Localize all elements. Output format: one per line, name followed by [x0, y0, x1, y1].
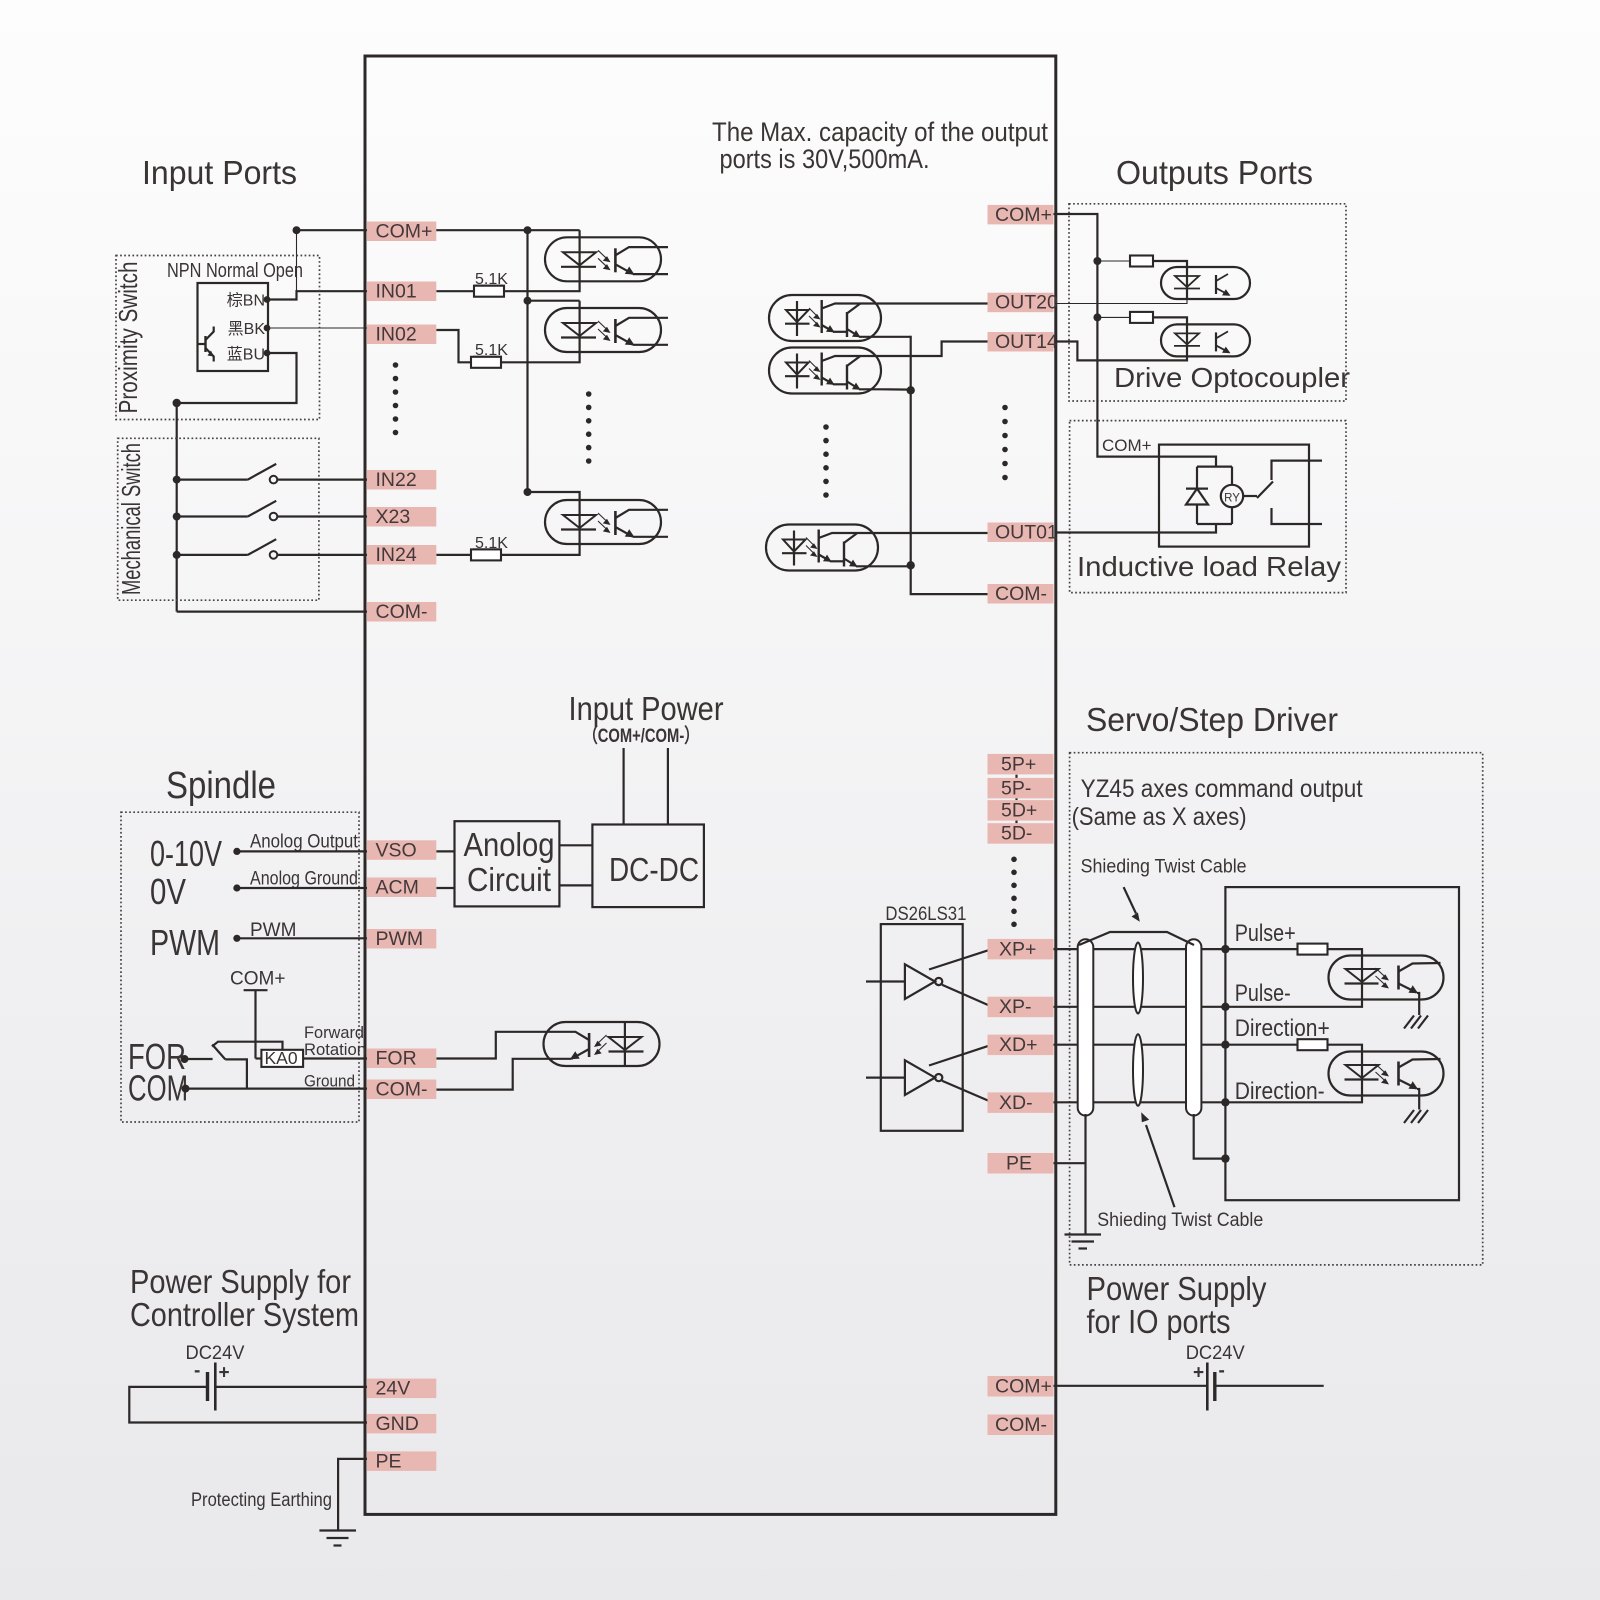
- wire U10 emitter down: [1417, 993, 1419, 1015]
- port COM- (left): [367, 601, 436, 623]
- port 5P+: [988, 753, 1054, 775]
- wire PE port to earth: [338, 1459, 367, 1530]
- wire tube2 tail to driver: [1194, 1114, 1226, 1159]
- wire XP- to driver: [1054, 1006, 1226, 1008]
- svg-text:OUT14: OUT14: [995, 331, 1058, 353]
- svg-text:Inductive load Relay: Inductive load Relay: [1077, 551, 1341, 582]
- wire R5 to U11 anode: [1328, 1045, 1363, 1052]
- junction dot bus to opto2: [524, 297, 532, 305]
- svg-text:(Same as X axes): (Same as X axes): [1072, 803, 1247, 831]
- wire IN01 through R1 to opto1 cathode: [436, 290, 474, 292]
- transistor Q1 inside sensor: [198, 327, 214, 362]
- chip DS26LS31 box: [881, 924, 963, 1131]
- wire U6 collector to OUT01: [878, 532, 988, 534]
- resistor R4: [1298, 944, 1328, 955]
- switch S1 (IN22): [173, 464, 367, 484]
- wire PE to shield: [1054, 1162, 1086, 1164]
- svg-text:COM+: COM+: [995, 1376, 1052, 1398]
- switch S3 (IN24): [173, 539, 367, 559]
- resistor RD1: [1130, 256, 1153, 267]
- wire U4 collector to OUT20: [881, 302, 988, 304]
- wire anolog to dcdc 2: [559, 884, 592, 886]
- junction dot U5 emitter: [907, 386, 915, 394]
- svg-text:5D-: 5D-: [1001, 823, 1032, 845]
- wire XD+ to driver: [1054, 1044, 1226, 1046]
- wire U11 emitter down: [1417, 1089, 1419, 1110]
- svg-text:RY: RY: [1224, 493, 1240, 505]
- port PE (left): [367, 1450, 436, 1472]
- wire battery to right: [1215, 1385, 1324, 1387]
- twist ellipse 2: [1133, 1034, 1143, 1106]
- wire COM+ io to battery: [1054, 1385, 1208, 1387]
- svg-text:XP+: XP+: [999, 938, 1036, 960]
- svg-text:0-10V: 0-10V: [150, 833, 222, 874]
- controller U0 main board outline: [365, 56, 1056, 1514]
- port FOR (left): [367, 1048, 436, 1070]
- svg-text:Shieding Twist Cable: Shieding Twist Cable: [1097, 1210, 1263, 1231]
- port IN24 (left): [367, 544, 436, 566]
- wire bus to opto2 anode: [528, 300, 580, 302]
- junction dot U6 emitter: [907, 561, 915, 569]
- svg-text:DC-DC: DC-DC: [609, 851, 699, 888]
- wire anolog to dcdc 1: [559, 844, 592, 846]
- wire opto1 anode drop: [578, 230, 580, 237]
- ellipsis servo column: [1011, 857, 1017, 928]
- chassis ground U10: [1404, 1016, 1428, 1029]
- resistor R2 5.1K: [471, 357, 501, 368]
- wire COM+ out to drive rail: [1054, 214, 1160, 457]
- port COM- (out) (right): [988, 583, 1054, 605]
- wire U6 emitter to bus: [878, 565, 911, 567]
- svg-text:黑BK: 黑BK: [228, 321, 266, 338]
- relay coil/diode bottom node: [1197, 523, 1232, 525]
- wire ACM to anolog: [436, 887, 454, 889]
- chassis ground U11: [1404, 1110, 1428, 1123]
- tick 5D+/5D-: [1015, 820, 1017, 823]
- wire U5 collector to OUT14: [881, 342, 988, 357]
- resistor R1 5.1K: [474, 286, 504, 297]
- optocoupler U3 (IN24): [545, 500, 668, 544]
- svg-text:Controller System: Controller System: [130, 1296, 359, 1333]
- svg-text:（COM+/COM-）: （COM+/COM-）: [583, 724, 699, 747]
- wire anolog ground to ACM: [237, 887, 367, 889]
- resistor RD2: [1130, 312, 1153, 323]
- svg-text:NPN Normal Open: NPN Normal Open: [167, 260, 303, 282]
- port COM+ (out) (right): [988, 204, 1054, 226]
- wire rail to RD1 (thin): [1097, 260, 1130, 262]
- port XD+: [988, 1034, 1054, 1056]
- optocoupler U9 (FOR) mirrored: [537, 1022, 660, 1066]
- junction dot drive rail 2: [1093, 313, 1101, 321]
- twist ellipse 1: [1133, 943, 1143, 1014]
- svg-text:5P+: 5P+: [1001, 753, 1036, 775]
- svg-text:for IO ports: for IO ports: [1087, 1303, 1231, 1340]
- junction dot drive rail 1: [1093, 257, 1101, 265]
- svg-text:COM+: COM+: [230, 969, 285, 990]
- svg-text:蓝BU: 蓝BU: [227, 346, 265, 364]
- wire IN01 to sensor BN: [267, 291, 367, 299]
- optocoupler U8 (drive OUT14): [1161, 324, 1250, 356]
- junction dot bus to opto3: [524, 488, 532, 496]
- wire IN02 to R2 to opto2 cathode: [436, 330, 471, 362]
- wire COM+ into coil top: [1159, 457, 1216, 467]
- port IN02 (left): [367, 324, 436, 346]
- svg-text:DC24V: DC24V: [1186, 1343, 1245, 1364]
- svg-text:The Max. capacity of the outpu: The Max. capacity of the output: [712, 117, 1048, 147]
- svg-text:5D+: 5D+: [1001, 800, 1037, 822]
- optocoupler U1 (IN01): [545, 237, 668, 281]
- svg-text:Servo/Step Driver: Servo/Step Driver: [1086, 701, 1338, 738]
- port COM- (spindle) (left): [367, 1079, 436, 1101]
- spindle dashed enclosure: [121, 812, 359, 1122]
- junction dot XD+: [1221, 1041, 1229, 1049]
- port COM- (io): [988, 1414, 1054, 1436]
- svg-text:X23: X23: [376, 506, 411, 528]
- svg-text:COM-: COM-: [376, 601, 428, 623]
- svg-text:FOR: FOR: [376, 1048, 417, 1070]
- wire Pulse+: [1225, 948, 1297, 950]
- svg-text:KA0: KA0: [265, 1048, 298, 1068]
- svg-text:OUT20: OUT20: [995, 292, 1058, 314]
- svg-text:Circuit: Circuit: [467, 861, 551, 898]
- svg-text:Anolog Ground: Anolog Ground: [250, 869, 358, 890]
- wire input power feed 2: [667, 748, 669, 825]
- svg-text:Drive Optocoupler: Drive Optocoupler: [1114, 362, 1350, 393]
- relay coil/diode top node: [1197, 466, 1232, 468]
- wire IN24 via R3 to opto3 cathode: [436, 554, 471, 556]
- port VSO (left): [367, 839, 436, 861]
- wire COM+ internal rail to optocouplers: [433, 229, 580, 231]
- cable shield tent: [1079, 932, 1194, 945]
- svg-text:Shieding Twist Cable: Shieding Twist Cable: [1081, 857, 1247, 878]
- svg-text:Power Supply for: Power Supply for: [130, 1263, 351, 1300]
- diode D1 freewheel: [1186, 467, 1208, 524]
- svg-text:COM+: COM+: [995, 204, 1052, 226]
- battery B2 DC24V: [1193, 1361, 1225, 1411]
- block DC-DC converter: [592, 825, 704, 908]
- svg-text:Proximity Switch: Proximity Switch: [113, 262, 143, 414]
- buffer A1: [866, 949, 992, 1007]
- svg-text:GND: GND: [376, 1413, 419, 1435]
- svg-text:+: +: [1193, 1363, 1204, 1384]
- junction dot COM+ left: [293, 226, 301, 234]
- wire rail to RD2 (thin): [1097, 316, 1130, 318]
- wire Direction+: [1225, 1044, 1297, 1046]
- arrow annotation top: [1124, 887, 1136, 913]
- wire switch common rail vertical: [176, 403, 178, 612]
- relay K1 body box: [1159, 445, 1309, 547]
- wire U7 cathode to OUT20 (thin): [1055, 299, 1187, 304]
- switch KA0 contact: [185, 1042, 283, 1089]
- port 24V: [367, 1378, 436, 1400]
- ellipsis outputs right column: [1002, 405, 1008, 481]
- svg-text:XD-: XD-: [999, 1092, 1033, 1114]
- earth ground protective: [319, 1531, 356, 1546]
- drive optocoupler dashed enclosure: [1069, 204, 1346, 401]
- wire KA0 to FOR port: [303, 1057, 367, 1059]
- svg-text:IN24: IN24: [376, 544, 417, 566]
- svg-text:DS26LS31: DS26LS31: [885, 904, 966, 925]
- port IN22 (left): [367, 469, 436, 491]
- wire COM- port to U9 emitter: [436, 1059, 536, 1090]
- wire emitter bus vertical: [911, 336, 988, 594]
- svg-text:Power Supply: Power Supply: [1087, 1270, 1267, 1307]
- ellipsis opto column: [586, 391, 592, 464]
- port IN01 (left): [367, 281, 436, 303]
- cable shield tube 1: [1078, 939, 1094, 1115]
- svg-text:OUT01: OUT01: [995, 522, 1058, 544]
- svg-text:COM-: COM-: [995, 583, 1047, 605]
- svg-text:ports is 30V,500mA.: ports is 30V,500mA.: [720, 144, 930, 174]
- wire tube1 tail: [1084, 1114, 1086, 1235]
- port OUT14 (right): [988, 331, 1059, 353]
- port XP-: [988, 996, 1054, 1018]
- svg-text:ACM: ACM: [376, 877, 419, 899]
- svg-text:PE: PE: [1006, 1153, 1032, 1175]
- svg-text:IN01: IN01: [376, 281, 417, 303]
- junction dot rail top: [173, 399, 181, 407]
- wire OUT14 to U8 cathode: [1055, 342, 1187, 361]
- arrow annotation bottom: [1146, 1125, 1175, 1207]
- svg-text:Pulse+: Pulse+: [1235, 920, 1296, 947]
- port PWM (left): [367, 928, 436, 950]
- optocoupler U10 (pulse): [1329, 956, 1444, 1000]
- svg-text:VSO: VSO: [376, 839, 417, 861]
- junction dot XP+: [1221, 945, 1229, 953]
- wire U5 emitter to bus: [881, 388, 911, 391]
- wire RD2 to U8 anode: [1153, 317, 1187, 324]
- wire Direction- U11 cathode: [1225, 1096, 1362, 1103]
- port OUT01 (right): [988, 522, 1058, 544]
- wire battery- loop: [129, 1387, 367, 1423]
- resistor R3 5.1K: [471, 549, 501, 560]
- ellipsis outputs left column: [823, 424, 829, 498]
- optocoupler U2 (IN02): [545, 308, 668, 352]
- wire pwm to PWM port: [237, 937, 367, 939]
- wire COM- left: [177, 610, 367, 612]
- optocoupler U6 (OUT01): [766, 525, 878, 571]
- port COM+ (left): [367, 221, 436, 243]
- wire VSO to anolog: [436, 850, 454, 852]
- port XP+: [988, 938, 1054, 960]
- wire COM to COM- port: [186, 1087, 368, 1089]
- svg-text:PWM: PWM: [150, 922, 220, 963]
- wire COM+ to BN/IN01 junction (thin drop): [296, 230, 298, 291]
- port PE (right): [988, 1153, 1054, 1175]
- block Anolog Circuit: [455, 821, 560, 906]
- svg-text:COM+: COM+: [376, 221, 433, 243]
- port XD-: [988, 1092, 1054, 1114]
- battery B1 DC24V: [194, 1361, 230, 1411]
- svg-text:Rotation: Rotation: [304, 1040, 366, 1059]
- port OUT20 (right): [988, 292, 1059, 314]
- wire FOR port to U9 collector: [436, 1032, 536, 1059]
- port 5P-: [988, 777, 1054, 799]
- switch S2 (X23): [173, 501, 367, 521]
- sensor body box: [198, 283, 269, 371]
- tick 5P+/5P-: [1015, 775, 1017, 778]
- svg-text:Mechanical Switch: Mechanical Switch: [116, 443, 146, 595]
- optocoupler U5 (OUT14): [769, 348, 881, 394]
- ellipsis input ports column: [393, 362, 399, 435]
- output section: optocoupler U4 (OUT20): [769, 295, 881, 341]
- junction dot shield bond: [1221, 1154, 1229, 1162]
- svg-text:Anolog: Anolog: [464, 826, 555, 863]
- wire opto2 anode drop: [578, 301, 580, 308]
- svg-text:Outputs Ports: Outputs Ports: [1116, 154, 1313, 191]
- mechanical switch dashed enclosure: [118, 438, 319, 600]
- relay box KA0: [261, 1050, 303, 1067]
- svg-text:COM-: COM-: [376, 1079, 428, 1101]
- earth ground PE: [1065, 1235, 1102, 1249]
- svg-text:Protecting Earthing: Protecting Earthing: [191, 1490, 332, 1511]
- svg-text:COM-: COM-: [995, 1414, 1047, 1436]
- svg-text:-: -: [1219, 1361, 1225, 1382]
- svg-text:-: -: [194, 1361, 200, 1382]
- junction dot XD-: [1221, 1098, 1229, 1106]
- wire bus vertical COM+ feed: [526, 230, 528, 492]
- resistor R5: [1298, 1039, 1328, 1050]
- port COM+ (io): [988, 1376, 1054, 1398]
- svg-text:COM: COM: [128, 1068, 188, 1109]
- inductive load relay dashed enclosure: [1070, 421, 1346, 593]
- junction dot COM+ rail at bus: [524, 226, 532, 234]
- wire BU to common rail: [177, 353, 297, 403]
- svg-text:PE: PE: [376, 1450, 402, 1472]
- svg-text:Spindle: Spindle: [166, 765, 276, 807]
- svg-text:PWM: PWM: [376, 928, 424, 950]
- svg-text:Input Ports: Input Ports: [142, 154, 297, 191]
- wire Pulse- U10 cathode: [1225, 1000, 1362, 1007]
- wire coil bottom to OUT01: [1055, 524, 1216, 533]
- wire COM+ left rail: [297, 229, 368, 231]
- svg-text:XP-: XP-: [999, 996, 1032, 1018]
- wire XP+ to driver: [1054, 948, 1226, 950]
- relay contact: [1243, 461, 1322, 524]
- svg-text:IN22: IN22: [376, 469, 417, 491]
- svg-text:24V: 24V: [376, 1378, 411, 1400]
- driver box: [1225, 887, 1459, 1200]
- port X23 (left): [367, 506, 436, 528]
- svg-text:5P-: 5P-: [1001, 777, 1031, 799]
- optocoupler U7 (drive OUT20): [1161, 267, 1250, 299]
- wire anolog output to VSO: [237, 850, 367, 852]
- wire input power feed 1: [622, 748, 624, 825]
- relay coil RY: [1221, 467, 1243, 524]
- buffer A2: [866, 1045, 992, 1103]
- power tap COM+ T-bar: [244, 989, 268, 991]
- svg-text:XD+: XD+: [999, 1034, 1037, 1056]
- port 5D+: [988, 800, 1054, 822]
- tick 5P-/5D+: [1015, 798, 1017, 800]
- svg-text:0V: 0V: [150, 871, 186, 912]
- svg-text:Pulse-: Pulse-: [1235, 980, 1291, 1007]
- junction dot XP-: [1221, 1003, 1229, 1011]
- port GND: [367, 1413, 436, 1435]
- svg-text:+: +: [219, 1363, 230, 1384]
- svg-text:Anolog Output: Anolog Output: [250, 832, 359, 853]
- cable shield tube 2: [1186, 939, 1201, 1115]
- wire R4 to U10 anode: [1328, 949, 1363, 955]
- node COM terminal: [182, 1085, 190, 1093]
- port ACM (left): [367, 877, 436, 899]
- svg-text:Direction+: Direction+: [1235, 1015, 1330, 1042]
- svg-text:棕BN: 棕BN: [227, 292, 265, 310]
- port 5D-: [988, 823, 1054, 845]
- wire XD- to driver: [1054, 1101, 1226, 1103]
- wire BK to IN02 (thin): [267, 327, 367, 329]
- node FOR terminal: [181, 1055, 189, 1063]
- svg-text:YZ45 axes command output: YZ45 axes command output: [1081, 775, 1363, 803]
- optocoupler U11 (direction): [1329, 1052, 1444, 1096]
- svg-text:Direction-: Direction-: [1235, 1078, 1325, 1105]
- svg-text:Input Power: Input Power: [569, 690, 724, 727]
- wire battery+ to 24V port: [215, 1386, 367, 1388]
- wire bus to opto3 anode: [528, 492, 580, 500]
- svg-text:IN02: IN02: [376, 324, 417, 346]
- wire RD1 to U7 anode: [1153, 261, 1187, 267]
- proximity switch dashed enclosure: [116, 256, 320, 420]
- svg-text:COM+: COM+: [1102, 436, 1152, 455]
- wire U4 emitter to bus: [881, 336, 911, 338]
- servo driver dashed enclosure: [1070, 753, 1483, 1265]
